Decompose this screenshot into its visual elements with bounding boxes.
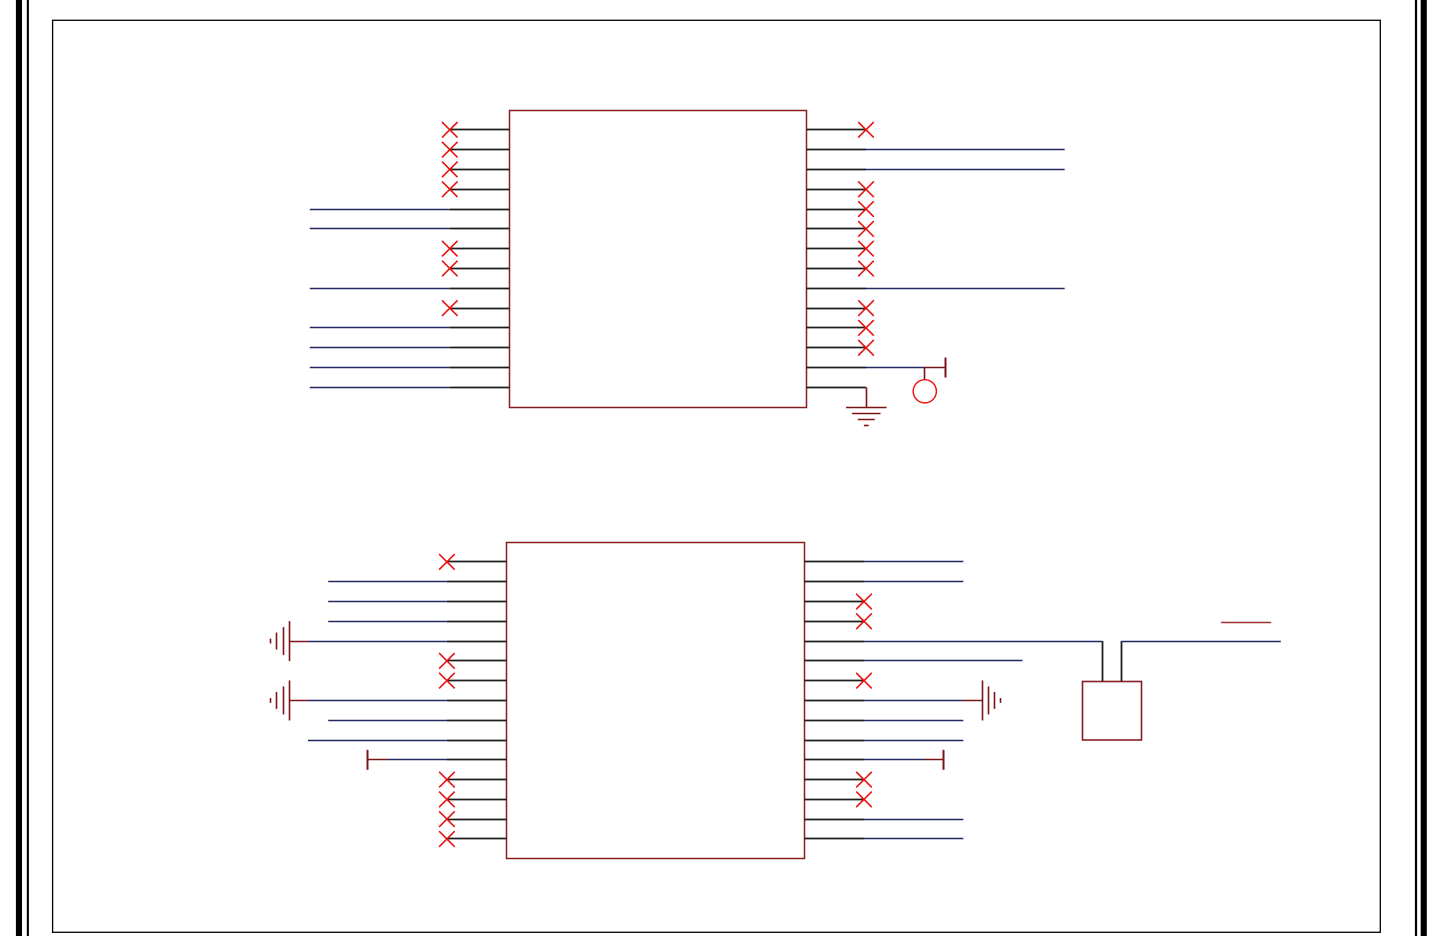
- U2 left pin 15: [447, 838, 507, 840]
- component X1 body (crystal): [1083, 682, 1142, 741]
- wire to U2 pin 4: [328, 621, 447, 623]
- U2 left pin 13: [447, 799, 507, 801]
- U1 left pin 14: [450, 387, 510, 389]
- U1 left pin 4: [450, 189, 510, 191]
- U2 left pin 7: [447, 680, 507, 682]
- wire to U1 pin 14: [310, 387, 450, 389]
- U2 right pin 27: [804, 779, 864, 781]
- no-connect X on U1 pin 24: [858, 300, 874, 316]
- U2 right pin 22: [804, 680, 864, 682]
- ground symbol GND (below U1): [846, 408, 887, 426]
- U1 right pin 15: [806, 129, 866, 131]
- U1 right pin 28: [806, 387, 866, 389]
- no-connect X on U1 pin 4: [442, 181, 458, 197]
- no-connect X on U1 pin 2: [442, 142, 458, 158]
- no-connect X on U1 pin 25: [858, 320, 874, 336]
- wire to U2 pin 2: [328, 581, 447, 583]
- no-connect X on U2 pin 27: [856, 772, 872, 788]
- U1 left pin 9: [450, 288, 510, 290]
- U2 right pin 18: [804, 601, 864, 603]
- no-connect X on U2 pin 18: [856, 594, 872, 610]
- no-connect X on U2 pin 19: [856, 613, 872, 629]
- U1 right pin 25: [806, 327, 866, 329]
- U1 left pin 6: [450, 228, 510, 230]
- net label underline: [1221, 622, 1271, 624]
- ground symbol GND (right of U2 pin 23): [983, 680, 1001, 720]
- U1 right pin 21: [806, 248, 866, 250]
- wire from U2 pin 17: [864, 581, 963, 583]
- no-connect X on U1 pin 22: [858, 261, 874, 277]
- U2 right pin 26: [804, 759, 864, 761]
- U2 left pin 5: [447, 641, 507, 643]
- sheet border: outer thick bar right: [1421, 0, 1427, 936]
- U2 left pin 8: [447, 700, 507, 702]
- sheet border: inner thin bar left: [27, 0, 29, 936]
- power port lead left of U2 pin 11: [367, 759, 388, 761]
- U2 right pin 17: [804, 581, 864, 583]
- U1 right pin 18: [806, 189, 866, 191]
- U1 left pin 5: [450, 209, 510, 211]
- U1 right pin 16: [806, 149, 866, 151]
- U2 left pin 6: [447, 660, 507, 662]
- no-connect X on U1 pin 26: [858, 340, 874, 356]
- U1 right pin 17: [806, 169, 866, 171]
- U2 left pin 2: [447, 581, 507, 583]
- U1 left pin 7: [450, 248, 510, 250]
- no-connect X on U2 pin 22: [856, 673, 872, 689]
- U2 right pin 24: [804, 720, 864, 722]
- wire from U1 pin 17: [866, 169, 1065, 171]
- no-connect X on U1 pin 3: [442, 162, 458, 178]
- wire to U1 pin 6: [310, 228, 450, 230]
- no-connect X on U2 pin 1: [439, 554, 455, 570]
- IC U2 body: [507, 543, 805, 859]
- U2 right pin 30: [804, 838, 864, 840]
- power port circle symbol: [913, 380, 936, 403]
- power port T-bar right of U2 pin 26: [943, 750, 945, 770]
- ground lead from U1 pin 28: [866, 387, 868, 407]
- U1 right pin 24: [806, 308, 866, 310]
- U2 right pin 25: [804, 740, 864, 742]
- U2 right pin 16: [804, 561, 864, 563]
- U1 left pin 8: [450, 268, 510, 270]
- wire to U2 pin 3: [328, 601, 447, 603]
- wire from U2 pin 25: [864, 740, 963, 742]
- sheet border: inner thin bar right: [1415, 0, 1417, 936]
- U2 right pin 20: [804, 641, 864, 643]
- U2 left pin 14: [447, 819, 507, 821]
- no-connect X on U1 pin 15: [858, 122, 874, 138]
- wire from U2 pin 26: [864, 759, 925, 761]
- U2 left pin 10: [447, 740, 507, 742]
- U2 right pin 28: [804, 799, 864, 801]
- wire from U2 pin 23: [864, 700, 963, 702]
- wire to U1 pin 9: [310, 288, 450, 290]
- U2 left pin 11: [447, 759, 507, 761]
- power port stem to circle: [924, 368, 926, 380]
- wire to U2 pin 11: [388, 759, 447, 761]
- no-connect X on U2 pin 7: [439, 673, 455, 689]
- IC U1 body: [510, 111, 807, 408]
- U1 left pin 1: [450, 129, 510, 131]
- U1 left pin 13: [450, 367, 510, 369]
- no-connect X on U2 pin 6: [439, 653, 455, 669]
- no-connect X on U1 pin 21: [858, 241, 874, 257]
- power port lead right of U2 pin 26: [925, 759, 944, 761]
- no-connect X on U1 pin 10: [442, 300, 458, 316]
- no-connect X on U2 pin 15: [439, 831, 455, 847]
- power port T-bar left of U2 pin 11: [367, 750, 369, 770]
- U2 right pin 29: [804, 819, 864, 821]
- no-connect X on U2 pin 14: [439, 811, 455, 827]
- no-connect X on U2 pin 12: [439, 772, 455, 788]
- U1 right pin 20: [806, 228, 866, 230]
- wire to U1 pin 11: [310, 327, 450, 329]
- wire to U2 pin 9: [328, 720, 447, 722]
- ground lead left of U2 pin 5: [289, 641, 308, 643]
- wire to U2 pin 10: [308, 740, 447, 742]
- wire from X1 pin 2: [1122, 641, 1281, 643]
- no-connect X on U1 pin 18: [858, 181, 874, 197]
- wire from U2 pin 16: [864, 561, 963, 563]
- U1 left pin 3: [450, 169, 510, 171]
- ground lead left of U2 pin 8: [289, 700, 308, 702]
- wire to U2 pin 5: [308, 641, 447, 643]
- U1 left pin 12: [450, 347, 510, 349]
- U1 left pin 10: [450, 308, 510, 310]
- U1 right pin 26: [806, 347, 866, 349]
- ground symbol GND (left of U2 pin 5): [271, 621, 290, 661]
- no-connect X on U2 pin 13: [439, 792, 455, 808]
- U2 right pin 23: [804, 700, 864, 702]
- no-connect X on U1 pin 20: [858, 221, 874, 237]
- X1 pin 2 lead: [1121, 641, 1123, 681]
- no-connect X on U2 pin 28: [856, 792, 872, 808]
- ground lead right of U2 pin 23: [963, 700, 983, 702]
- U2 left pin 4: [447, 621, 507, 623]
- no-connect X on U1 pin 1: [442, 122, 458, 138]
- sheet border: outer thick bar left: [16, 0, 22, 936]
- U1 left pin 11: [450, 327, 510, 329]
- wire from U1 pin 23: [866, 288, 1065, 290]
- wire to U2 pin 8: [308, 700, 447, 702]
- power port T-bar VCC: [945, 358, 947, 378]
- U2 left pin 9: [447, 720, 507, 722]
- U2 left pin 1: [447, 561, 507, 563]
- no-connect X on U1 pin 19: [858, 201, 874, 217]
- wire from U1 pin 16: [866, 149, 1065, 151]
- wire to U1 pin 5: [310, 209, 450, 211]
- wire from U2 pin 24: [864, 720, 963, 722]
- U2 left pin 12: [447, 779, 507, 781]
- wire from U2 pin 20 to X1: [864, 641, 1102, 643]
- wire from U2 pin 29: [864, 819, 963, 821]
- wire from U2 pin 21: [864, 660, 1023, 662]
- U1 left pin 2: [450, 149, 510, 151]
- no-connect X on U1 pin 7: [442, 241, 458, 257]
- U1 right pin 27: [806, 367, 866, 369]
- U1 right pin 22: [806, 268, 866, 270]
- U1 right pin 19: [806, 209, 866, 211]
- ground symbol GND (left of U2 pin 8): [271, 680, 290, 720]
- wire to U1 pin 12: [310, 347, 450, 349]
- wire from U2 pin 30: [864, 838, 963, 840]
- power port lead VCC: [925, 367, 946, 369]
- no-connect X on U1 pin 8: [442, 261, 458, 277]
- wire from U1 pin 27 to power port: [866, 367, 925, 369]
- U2 right pin 21: [804, 660, 864, 662]
- wire to U1 pin 13: [310, 367, 450, 369]
- U2 right pin 19: [804, 621, 864, 623]
- X1 pin 1 lead: [1102, 641, 1104, 681]
- U2 left pin 3: [447, 601, 507, 603]
- U1 right pin 23: [806, 288, 866, 290]
